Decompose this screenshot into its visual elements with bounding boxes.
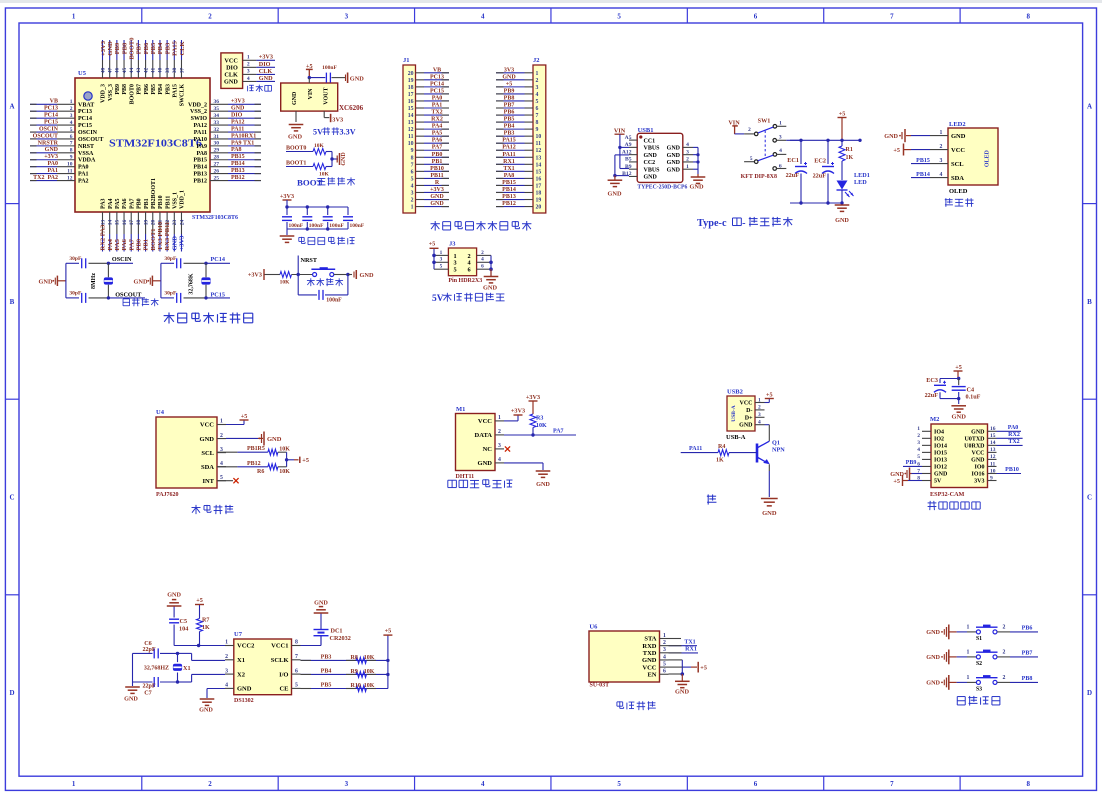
- svg-text:VBAT: VBAT: [78, 102, 94, 108]
- svg-text:VBUS: VBUS: [644, 146, 661, 152]
- svg-text:TX1: TX1: [503, 166, 514, 172]
- svg-text:C7: C7: [144, 690, 152, 697]
- svg-text:30pF: 30pF: [69, 256, 82, 262]
- svg-text:C4: C4: [967, 387, 975, 394]
- svg-text:TYPEC-250D-BCP6: TYPEC-250D-BCP6: [637, 184, 687, 190]
- svg-text:GND: GND: [934, 472, 948, 478]
- svg-text:3: 3: [663, 647, 666, 653]
- svg-text:PB12: PB12: [231, 175, 245, 181]
- svg-text:5: 5: [454, 267, 457, 274]
- svg-text:13: 13: [100, 220, 106, 226]
- svg-text:B5: B5: [625, 157, 632, 163]
- svg-text:+5: +5: [700, 665, 707, 672]
- svg-text:PC14: PC14: [44, 113, 58, 119]
- svg-text:PB12: PB12: [247, 461, 261, 467]
- svg-text:PA4: PA4: [107, 238, 114, 250]
- svg-text:8: 8: [295, 640, 298, 646]
- svg-text:3: 3: [758, 412, 761, 418]
- svg-text:PB13: PB13: [231, 168, 245, 174]
- svg-text:SW1: SW1: [758, 118, 771, 125]
- svg-text:10K: 10K: [364, 655, 375, 661]
- svg-text:20: 20: [408, 71, 414, 77]
- svg-text:+3V3: +3V3: [248, 272, 262, 279]
- svg-text:PA1: PA1: [78, 172, 89, 178]
- svg-text:39: 39: [165, 68, 171, 74]
- svg-text:J2: J2: [533, 57, 540, 64]
- svg-text:2: 2: [940, 144, 943, 150]
- svg-text:100nF: 100nF: [350, 223, 365, 229]
- svg-text:IO2: IO2: [934, 437, 944, 443]
- svg-text:PB3: PB3: [321, 655, 332, 661]
- svg-text:1: 1: [917, 426, 920, 432]
- svg-text:U5: U5: [78, 70, 87, 77]
- svg-text:PB15: PB15: [231, 154, 245, 160]
- svg-text:VDDA: VDDA: [78, 158, 96, 164]
- svg-text:PB15: PB15: [502, 180, 516, 186]
- svg-text:XC6206: XC6206: [339, 104, 364, 112]
- svg-text:PC14: PC14: [211, 256, 225, 263]
- svg-text:GND: GND: [483, 285, 497, 292]
- svg-text:PB9: PB9: [114, 42, 121, 54]
- svg-text:GND: GND: [667, 146, 681, 152]
- svg-text:OSCOUT: OSCOUT: [33, 133, 58, 139]
- svg-text:+5: +5: [385, 628, 392, 635]
- svg-text:J3: J3: [449, 241, 456, 248]
- svg-text:EC3: EC3: [926, 377, 938, 384]
- svg-text:GND: GND: [478, 460, 493, 467]
- svg-text:C: C: [1087, 494, 1092, 502]
- svg-text:5: 5: [295, 683, 298, 689]
- svg-text:2: 2: [758, 405, 761, 411]
- svg-text:PC15: PC15: [78, 123, 92, 129]
- svg-text:2: 2: [247, 62, 250, 68]
- svg-text:14: 14: [107, 220, 113, 226]
- svg-text:TX2: TX2: [431, 110, 442, 116]
- svg-text:9: 9: [70, 155, 73, 161]
- svg-text:3: 3: [411, 190, 414, 196]
- svg-text:RX3 PB11: RX3 PB11: [164, 222, 171, 251]
- svg-text:GND: GND: [430, 201, 444, 207]
- svg-text:17: 17: [408, 92, 414, 98]
- svg-text:GND: GND: [675, 689, 689, 696]
- svg-text:2: 2: [70, 106, 73, 112]
- svg-text:M2: M2: [930, 416, 939, 423]
- svg-text:2: 2: [1003, 649, 1006, 655]
- svg-text:PB8: PB8: [122, 84, 128, 95]
- svg-text:100nF: 100nF: [309, 223, 324, 229]
- svg-text:38: 38: [172, 68, 178, 74]
- svg-text:SCL: SCL: [951, 161, 964, 168]
- svg-text:3: 3: [345, 13, 349, 21]
- svg-text:PB8: PB8: [504, 95, 515, 101]
- svg-text:GND: GND: [971, 430, 985, 436]
- svg-text:PB15: PB15: [916, 158, 930, 164]
- svg-text:2: 2: [411, 198, 414, 204]
- svg-text:PA12: PA12: [193, 123, 207, 129]
- svg-text:-: -: [742, 218, 746, 229]
- svg-text:5: 5: [70, 127, 73, 133]
- svg-text:3: 3: [498, 443, 501, 449]
- svg-text:PA10RX1: PA10RX1: [231, 133, 256, 139]
- svg-text:USB-A: USB-A: [731, 405, 737, 422]
- svg-text:VCC: VCC: [951, 147, 965, 154]
- svg-text:8: 8: [411, 155, 414, 161]
- svg-text:1K: 1K: [716, 458, 724, 464]
- svg-text:47: 47: [107, 68, 113, 74]
- svg-text:28: 28: [214, 155, 220, 161]
- svg-text:7: 7: [411, 162, 414, 168]
- svg-text:R4: R4: [718, 444, 725, 450]
- svg-text:VBUS: VBUS: [644, 167, 661, 173]
- svg-text:+3V3: +3V3: [526, 394, 540, 401]
- svg-text:TX3 PB10: TX3 PB10: [157, 222, 164, 251]
- svg-text:BOOT1: BOOT1: [286, 161, 306, 167]
- svg-text:+3V3: +3V3: [231, 99, 245, 105]
- svg-text:A: A: [9, 102, 14, 110]
- svg-text:40: 40: [158, 68, 164, 74]
- svg-text:TX1: TX1: [684, 639, 695, 645]
- svg-text:5: 5: [617, 780, 621, 788]
- svg-text:LED2: LED2: [949, 121, 966, 128]
- svg-text:PA0: PA0: [78, 165, 89, 171]
- svg-text:30pF: 30pF: [69, 291, 82, 297]
- svg-text:GND: GND: [124, 696, 138, 703]
- svg-text:1: 1: [940, 130, 943, 136]
- svg-text:GND: GND: [314, 600, 328, 607]
- svg-text:10K: 10K: [280, 279, 291, 285]
- svg-text:14: 14: [408, 113, 414, 119]
- svg-text:11: 11: [990, 461, 995, 467]
- svg-text:GND: GND: [231, 106, 245, 112]
- svg-text:PB6: PB6: [504, 110, 515, 116]
- svg-text:OSCIN: OSCIN: [78, 130, 98, 136]
- svg-text:EC1: EC1: [787, 157, 799, 164]
- svg-text:PB7: PB7: [504, 103, 515, 109]
- svg-text:15: 15: [536, 169, 542, 175]
- svg-text:5: 5: [411, 176, 414, 182]
- svg-text:22pF: 22pF: [142, 647, 155, 653]
- svg-text:GND: GND: [360, 272, 374, 279]
- svg-text:PB4: PB4: [158, 84, 164, 95]
- svg-text:STM32F103C8T6: STM32F103C8T6: [192, 214, 239, 221]
- svg-text:CLK: CLK: [179, 41, 186, 55]
- svg-text:IO4: IO4: [934, 430, 944, 436]
- svg-text:37: 37: [179, 68, 185, 74]
- svg-text:D+: D+: [745, 415, 753, 421]
- svg-text:30pF: 30pF: [164, 291, 177, 297]
- svg-text:+5: +5: [955, 364, 962, 371]
- svg-text:GND: GND: [644, 175, 658, 181]
- svg-text:6: 6: [481, 264, 484, 270]
- svg-text:GND: GND: [536, 481, 550, 488]
- svg-text:4: 4: [498, 457, 501, 463]
- svg-text:PB0: PB0: [136, 239, 143, 251]
- svg-text:X1: X1: [183, 665, 191, 672]
- svg-text:+5: +5: [302, 457, 309, 464]
- svg-text:BOOT0: BOOT0: [129, 37, 136, 59]
- svg-text:3V3: 3V3: [974, 479, 984, 485]
- svg-text:RX1: RX1: [685, 647, 697, 653]
- svg-text:LED1: LED1: [854, 172, 870, 179]
- svg-text:PB14: PB14: [916, 172, 930, 178]
- svg-text:1: 1: [967, 624, 970, 630]
- svg-text:VSSA: VSSA: [78, 151, 94, 157]
- svg-text:PA11: PA11: [689, 446, 702, 452]
- svg-text:VB: VB: [50, 99, 58, 105]
- svg-text:R5: R5: [258, 446, 265, 452]
- svg-text:4: 4: [686, 142, 689, 148]
- svg-text:OSCIN: OSCIN: [112, 256, 132, 263]
- svg-text:PA1: PA1: [47, 168, 58, 174]
- svg-text:TXD: TXD: [643, 650, 657, 657]
- svg-text:104: 104: [179, 626, 188, 633]
- svg-text:RX2 PA3: RX2 PA3: [100, 224, 107, 250]
- svg-text:11: 11: [536, 141, 542, 147]
- svg-text:VIN: VIN: [308, 88, 314, 100]
- svg-text:4: 4: [481, 257, 484, 263]
- svg-text:PB4: PB4: [321, 669, 332, 675]
- svg-text:1: 1: [225, 640, 228, 646]
- svg-text:16: 16: [536, 176, 542, 182]
- svg-text:3: 3: [345, 780, 349, 788]
- svg-text:6: 6: [295, 668, 298, 674]
- svg-text:+3V3: +3V3: [259, 54, 273, 61]
- svg-text:26: 26: [214, 168, 220, 174]
- svg-text:RX1: RX1: [503, 159, 515, 165]
- svg-text:PB1: PB1: [247, 446, 258, 452]
- svg-text:DATA: DATA: [475, 432, 493, 439]
- svg-text:4: 4: [940, 172, 943, 178]
- svg-text:32,768K: 32,768K: [189, 273, 195, 295]
- svg-text:29: 29: [214, 148, 220, 154]
- svg-text:2: 2: [1003, 675, 1006, 681]
- svg-text:2: 2: [481, 250, 484, 256]
- svg-text:PA0: PA0: [47, 161, 58, 167]
- svg-text:5: 5: [917, 454, 920, 460]
- svg-text:19: 19: [143, 220, 149, 226]
- svg-text:A: A: [1087, 102, 1092, 110]
- svg-text:EC2: EC2: [814, 158, 826, 165]
- svg-text:PB13: PB13: [193, 172, 207, 178]
- svg-text:RX2: RX2: [431, 117, 443, 123]
- svg-text:7: 7: [890, 13, 894, 21]
- svg-text:STA: STA: [644, 636, 656, 643]
- svg-text:USB-A: USB-A: [726, 434, 746, 441]
- svg-text:GND: GND: [739, 423, 753, 429]
- svg-text:27: 27: [214, 161, 220, 167]
- svg-text:PA7: PA7: [432, 145, 443, 151]
- svg-text:J1: J1: [403, 57, 410, 64]
- svg-text:PC14: PC14: [78, 116, 92, 122]
- svg-text:I/O: I/O: [279, 671, 288, 678]
- svg-text:NRSTR: NRSTR: [38, 140, 59, 146]
- svg-text:BOOT1: BOOT1: [150, 228, 157, 250]
- svg-text:8MHz: 8MHz: [91, 273, 97, 289]
- svg-text:+5: +5: [893, 147, 900, 154]
- svg-text:1: 1: [70, 99, 73, 105]
- svg-text:DHT11: DHT11: [456, 474, 475, 480]
- svg-text:3: 3: [70, 113, 73, 119]
- svg-text:5V: 5V: [313, 128, 323, 137]
- svg-text:4: 4: [70, 120, 73, 126]
- svg-text:PA0: PA0: [432, 95, 443, 101]
- svg-text:+5: +5: [766, 391, 773, 398]
- svg-text:15: 15: [115, 220, 121, 226]
- svg-text:INT: INT: [202, 478, 214, 485]
- svg-text:0.1uF: 0.1uF: [966, 394, 981, 401]
- svg-text:1: 1: [967, 675, 970, 681]
- svg-text:PB3: PB3: [164, 42, 171, 54]
- svg-text:GND: GND: [267, 436, 282, 443]
- svg-text:PB7: PB7: [136, 42, 143, 54]
- svg-text:+5: +5: [839, 110, 846, 117]
- svg-text:1: 1: [72, 13, 76, 21]
- svg-text:GND: GND: [430, 194, 444, 200]
- svg-text:CLK: CLK: [224, 72, 238, 79]
- svg-text:PC14: PC14: [430, 81, 444, 87]
- svg-text:3: 3: [536, 85, 539, 91]
- svg-text:5: 5: [750, 156, 753, 162]
- svg-text:7: 7: [890, 780, 894, 788]
- svg-text:PC13: PC13: [44, 106, 58, 112]
- svg-text:PA2: PA2: [78, 179, 89, 185]
- svg-text:34: 34: [214, 113, 220, 119]
- svg-text:+3V3: +3V3: [100, 40, 107, 56]
- svg-text:33: 33: [214, 120, 220, 126]
- svg-text:VSS_2: VSS_2: [190, 109, 207, 115]
- svg-text:5V: 5V: [934, 479, 942, 485]
- svg-text:3.3V: 3.3V: [340, 128, 356, 137]
- svg-text:IO16: IO16: [971, 472, 984, 478]
- svg-text:R8: R8: [351, 655, 358, 661]
- svg-text:U6: U6: [589, 624, 598, 631]
- svg-text:10: 10: [408, 141, 414, 147]
- svg-text:3: 3: [225, 668, 228, 674]
- svg-text:2: 2: [1003, 624, 1006, 630]
- svg-text:GND: GND: [288, 134, 302, 141]
- svg-text:PA7: PA7: [129, 198, 135, 209]
- svg-text:GND: GND: [951, 133, 966, 140]
- svg-text:+3V3: +3V3: [179, 235, 186, 251]
- svg-text:1K: 1K: [846, 155, 854, 161]
- svg-text:PC15: PC15: [44, 119, 58, 125]
- svg-text:GND: GND: [45, 147, 59, 153]
- svg-text:PA12: PA12: [231, 119, 245, 125]
- svg-text:9: 9: [536, 127, 539, 133]
- svg-text:PB8: PB8: [121, 42, 128, 54]
- svg-text:PA11: PA11: [231, 126, 244, 132]
- svg-text:18: 18: [408, 85, 414, 91]
- svg-text:PA5: PA5: [115, 198, 121, 209]
- svg-text:SWCLK: SWCLK: [180, 84, 186, 107]
- svg-text:PB14: PB14: [231, 161, 245, 167]
- svg-text:9: 9: [411, 148, 414, 154]
- svg-text:4: 4: [481, 780, 485, 788]
- svg-text:PA6: PA6: [121, 238, 128, 250]
- svg-text:GND: GND: [971, 458, 985, 464]
- svg-text:3: 3: [940, 158, 943, 164]
- svg-text:B: B: [1087, 298, 1092, 306]
- svg-text:PB3: PB3: [504, 131, 515, 137]
- svg-text:19: 19: [536, 198, 542, 204]
- svg-text:35: 35: [214, 106, 220, 112]
- svg-text:U7: U7: [234, 631, 243, 638]
- svg-text:GND: GND: [167, 592, 181, 599]
- svg-text:+5: +5: [429, 241, 435, 247]
- svg-text:Pin HDR2X3: Pin HDR2X3: [448, 278, 482, 284]
- svg-text:5: 5: [220, 475, 223, 481]
- svg-text:PB4: PB4: [504, 124, 515, 130]
- svg-text:PB5: PB5: [321, 683, 332, 689]
- svg-text:16: 16: [408, 99, 414, 105]
- svg-text:B: B: [10, 298, 15, 306]
- svg-text:NRST: NRST: [301, 257, 318, 264]
- svg-text:U0RXD: U0RXD: [964, 444, 985, 450]
- svg-text:VB: VB: [433, 67, 441, 73]
- svg-text:PA1: PA1: [432, 103, 443, 109]
- svg-text:VDD_2: VDD_2: [188, 102, 207, 108]
- svg-text:36: 36: [214, 99, 220, 105]
- svg-text:4: 4: [225, 683, 228, 689]
- svg-text:R6: R6: [257, 469, 264, 475]
- svg-text:10K: 10K: [364, 669, 375, 675]
- svg-text:PB11: PB11: [430, 173, 443, 179]
- svg-text:NRST: NRST: [78, 144, 94, 150]
- svg-text:24: 24: [179, 220, 185, 226]
- svg-text:PB6: PB6: [144, 84, 150, 95]
- svg-text:PA5: PA5: [114, 238, 121, 250]
- svg-text:GND: GND: [835, 217, 849, 224]
- svg-text:PA3: PA3: [101, 198, 107, 209]
- svg-text:PC15: PC15: [211, 291, 225, 298]
- svg-text:PB12: PB12: [193, 179, 207, 185]
- svg-text:GND: GND: [200, 436, 215, 443]
- svg-text:8: 8: [70, 148, 73, 154]
- svg-text:6: 6: [754, 13, 758, 21]
- svg-text:PB14: PB14: [193, 165, 207, 171]
- svg-text:U0TXD: U0TXD: [964, 437, 985, 443]
- svg-text:3: 3: [686, 149, 689, 155]
- svg-text:1: 1: [411, 205, 414, 211]
- svg-text:OSCOUT: OSCOUT: [115, 291, 142, 298]
- svg-text:32: 32: [214, 127, 220, 133]
- svg-text:S1: S1: [976, 636, 982, 642]
- svg-text:GND: GND: [884, 133, 898, 140]
- svg-text:PB10: PB10: [430, 166, 444, 172]
- svg-text:VCC: VCC: [642, 664, 656, 671]
- svg-text:+3V3: +3V3: [44, 154, 58, 160]
- svg-text:30pF: 30pF: [164, 256, 177, 262]
- svg-text:PA7: PA7: [553, 429, 564, 435]
- svg-text:OSCOUT: OSCOUT: [78, 137, 103, 143]
- svg-text:4: 4: [536, 92, 539, 98]
- svg-text:OLED: OLED: [949, 188, 968, 195]
- svg-text:IO14: IO14: [934, 444, 947, 450]
- svg-text:PA10: PA10: [193, 137, 207, 143]
- svg-text:IO15: IO15: [934, 451, 947, 457]
- svg-text:1: 1: [663, 633, 666, 639]
- svg-text:44: 44: [129, 68, 135, 74]
- svg-text:DIO: DIO: [259, 61, 271, 68]
- svg-text:GND: GND: [667, 167, 681, 173]
- svg-text:PB9: PB9: [906, 460, 917, 466]
- svg-text:+5: +5: [506, 81, 512, 87]
- svg-text:GND: GND: [39, 278, 53, 285]
- svg-text:1: 1: [220, 419, 223, 425]
- svg-text:16: 16: [990, 426, 996, 432]
- svg-text:13: 13: [536, 155, 542, 161]
- svg-text:B12: B12: [622, 171, 632, 177]
